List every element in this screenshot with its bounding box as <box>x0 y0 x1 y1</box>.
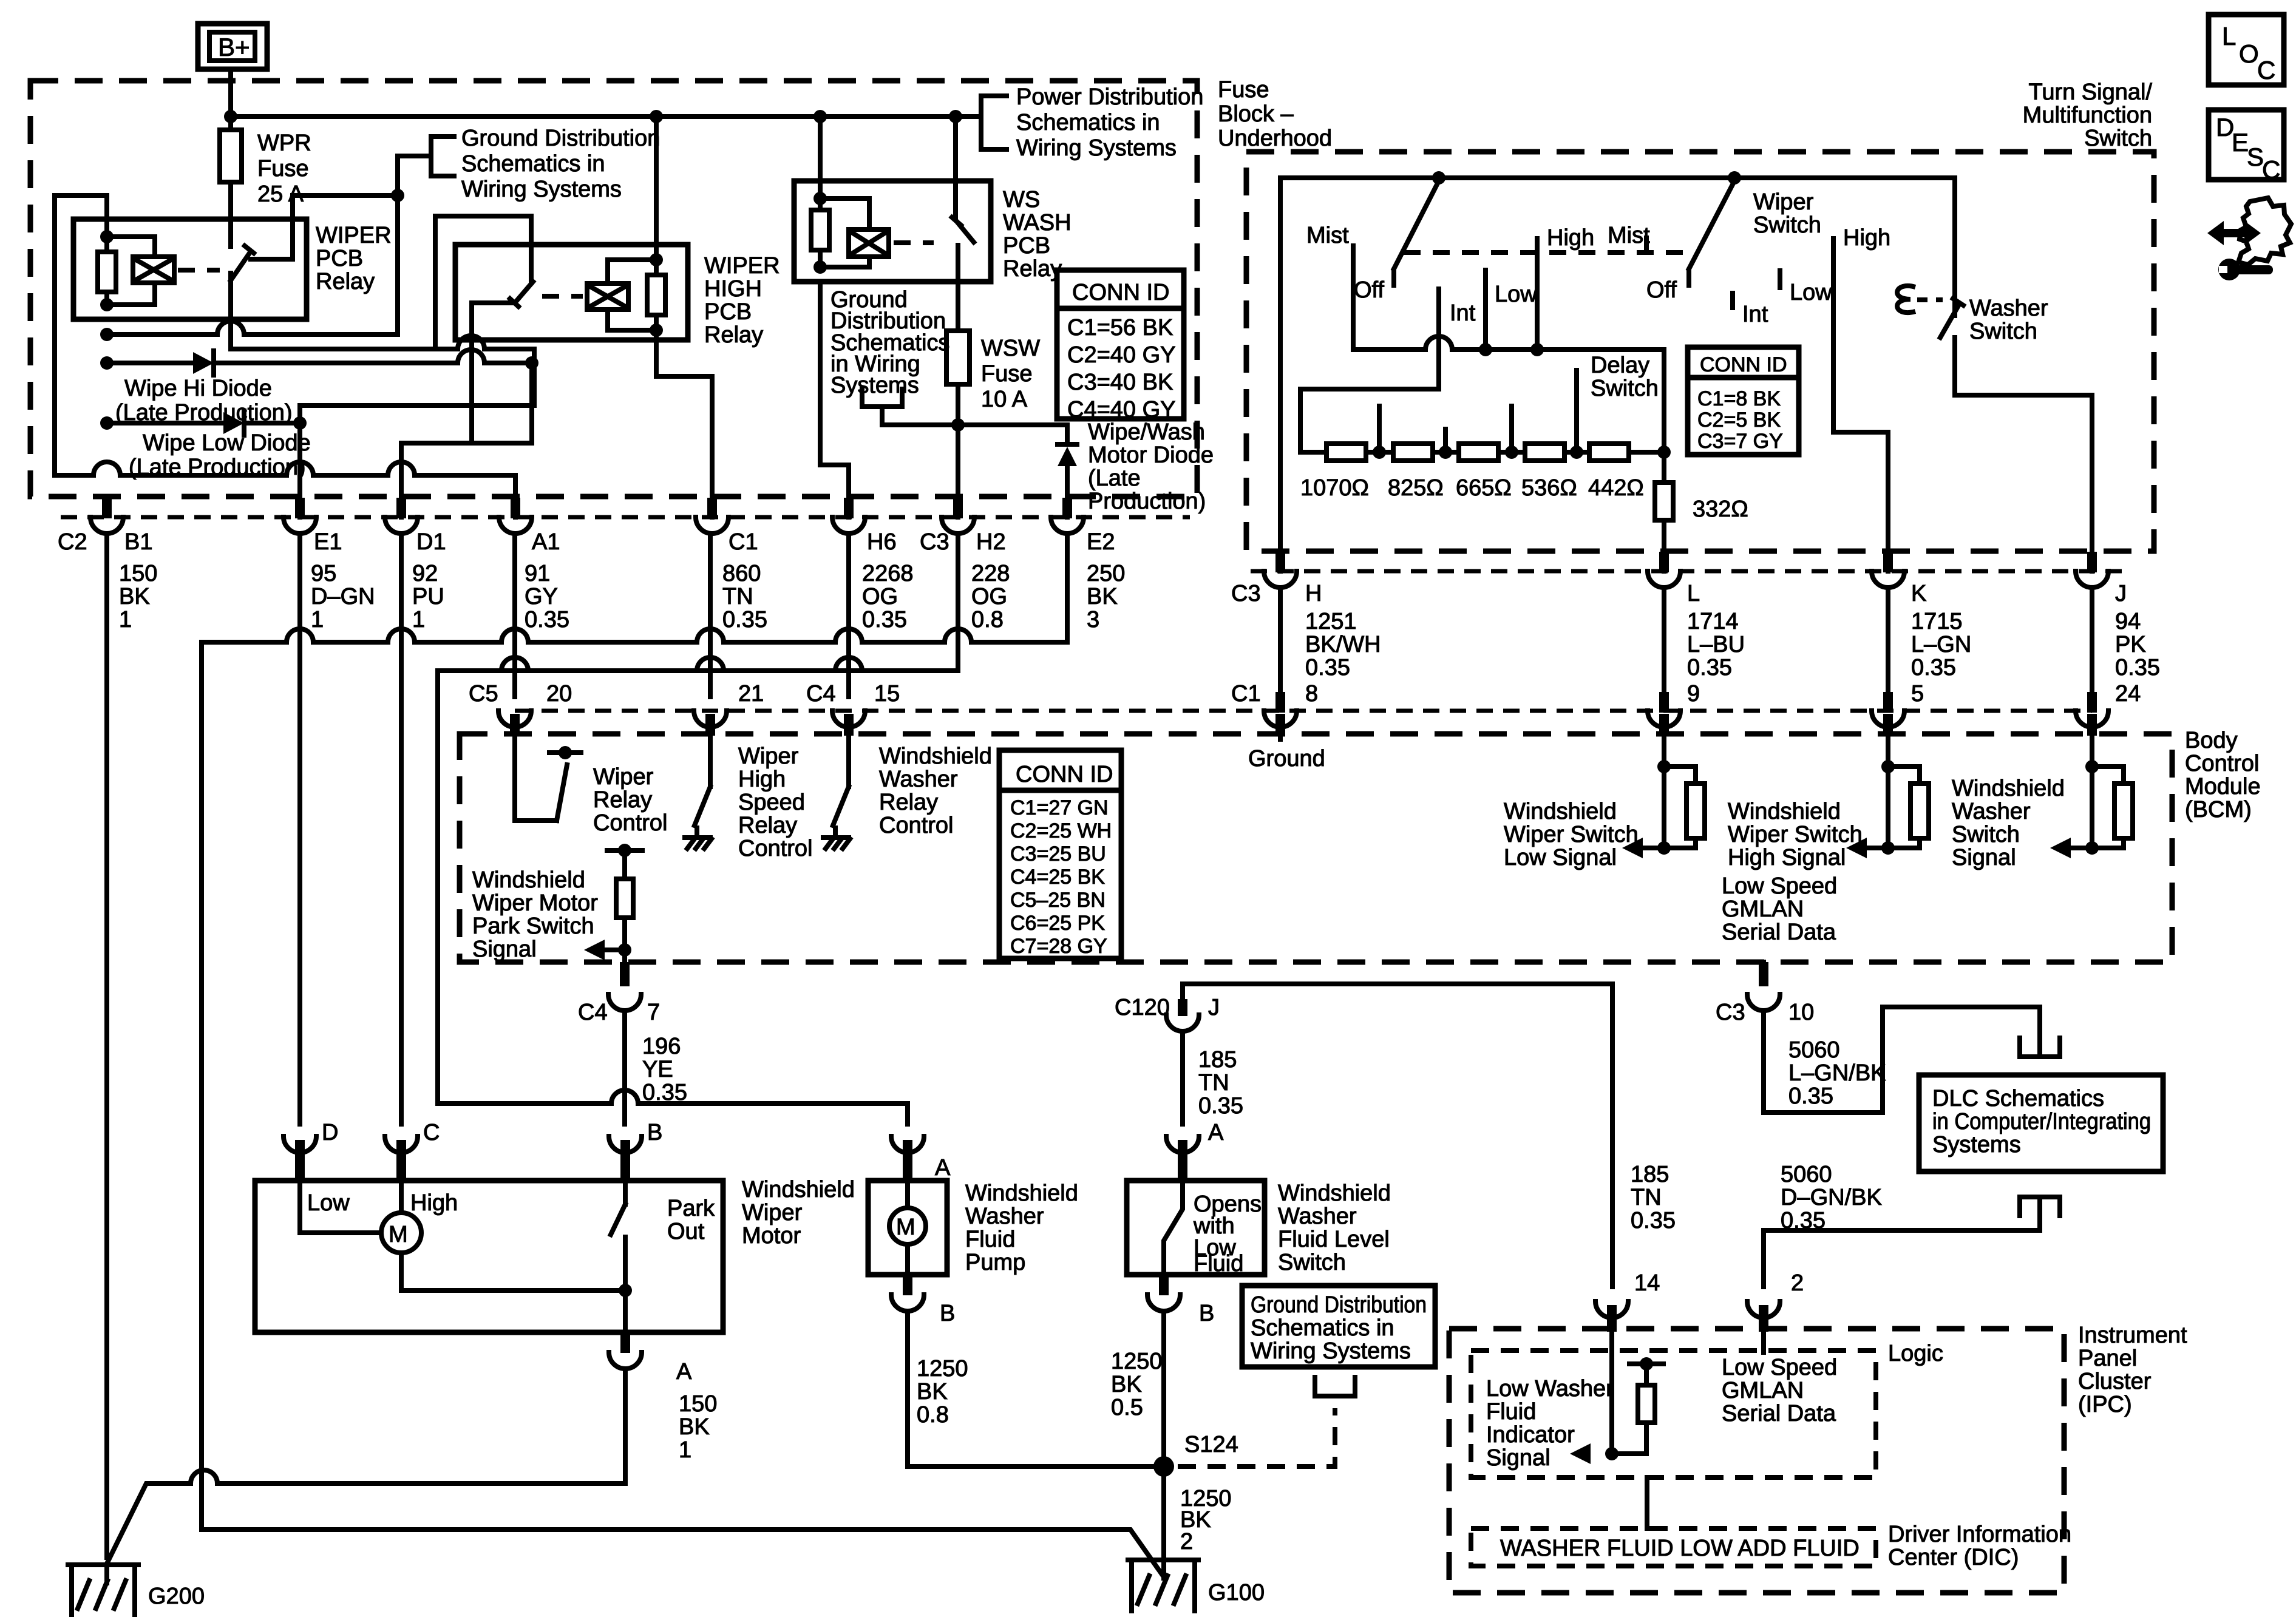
svg-text:CONN ID: CONN ID <box>1700 353 1787 376</box>
svg-text:Windshield: Windshield <box>472 867 585 893</box>
svg-text:H6: H6 <box>867 529 897 555</box>
wire E2 ground run <box>945 535 1067 642</box>
fuse WSW 10A <box>946 331 970 384</box>
arrow low washer fluid indicator signal <box>1570 1443 1591 1464</box>
arrow washer switch signal <box>2050 838 2071 858</box>
svg-text:Windshield: Windshield <box>965 1181 1078 1206</box>
svg-text:0.35: 0.35 <box>1911 655 1956 680</box>
svg-text:PCB: PCB <box>704 299 752 325</box>
arrow wiper switch high signal <box>1846 838 1867 858</box>
svg-text:BK: BK <box>1111 1372 1142 1397</box>
windshield washer fluid level switch box <box>1127 1181 1265 1275</box>
body control module dashed box <box>460 734 2172 962</box>
ground distribution schematics box lower <box>1242 1286 1435 1367</box>
svg-text:Panel: Panel <box>2078 1346 2137 1371</box>
svg-text:DLC Schematics: DLC Schematics <box>1932 1086 2104 1111</box>
svg-text:H: H <box>1305 581 1322 606</box>
svg-text:185: 185 <box>1631 1162 1669 1187</box>
svg-text:HIGH: HIGH <box>704 276 762 302</box>
svg-text:Wiper: Wiper <box>593 764 654 790</box>
svg-text:D–GN/BK: D–GN/BK <box>1781 1185 1882 1210</box>
wire ws coil to H6 <box>820 282 849 517</box>
svg-text:BK: BK <box>1087 584 1118 609</box>
svg-text:Power Distribution: Power Distribution <box>1016 84 1203 110</box>
svg-text:0.8: 0.8 <box>971 607 1004 632</box>
svg-text:Driver Information: Driver Information <box>1888 1522 2071 1547</box>
svg-text:GMLAN: GMLAN <box>1722 1378 1804 1403</box>
svg-text:TN: TN <box>722 584 753 609</box>
svg-text:5: 5 <box>1911 681 1924 707</box>
mechanical link dashed <box>1404 250 1683 255</box>
svg-text:8: 8 <box>1305 681 1318 707</box>
svg-text:Washer: Washer <box>965 1204 1044 1229</box>
wire C120 to fluid switch A <box>1180 1032 1185 1124</box>
wire ground pin stub <box>1278 736 1283 739</box>
svg-text:C: C <box>2262 155 2280 184</box>
svg-text:0.35: 0.35 <box>1687 655 1732 680</box>
svg-text:Wiring Systems: Wiring Systems <box>1251 1338 1411 1364</box>
fuse block underhood dashed box <box>30 81 1197 497</box>
svg-text:1250: 1250 <box>917 1356 968 1381</box>
svg-text:BK: BK <box>679 1414 710 1440</box>
node chain output <box>1657 446 1671 459</box>
svg-text:C5–25 BN: C5–25 BN <box>1010 889 1106 912</box>
svg-text:O: O <box>2239 39 2259 68</box>
relay WIPER HIGH PCB box <box>455 245 688 340</box>
connector 14 ipc <box>1595 1301 1628 1332</box>
connector A fluid level switch <box>1166 1136 1199 1181</box>
svg-text:S124: S124 <box>1184 1432 1238 1457</box>
svg-text:Fluid: Fluid <box>965 1227 1015 1252</box>
connector C3 10 gmlan <box>1747 962 1780 1011</box>
svg-text:C5: C5 <box>469 681 498 707</box>
wire 14 into logic <box>1609 1318 1614 1454</box>
washer switch arm <box>1940 299 1963 337</box>
node wipe low anode <box>100 416 114 430</box>
power distribution bracket <box>981 96 1007 149</box>
wire wiper relay pivot down <box>228 273 233 349</box>
svg-text:Wipe/Wash: Wipe/Wash <box>1088 419 1205 445</box>
wire A1 to BCM pin 20 <box>512 535 517 697</box>
svg-text:442Ω: 442Ω <box>1588 475 1644 501</box>
svg-text:0.35: 0.35 <box>525 607 569 632</box>
svg-text:150: 150 <box>119 561 157 586</box>
wire H6 to BCM pin 15 <box>846 535 851 697</box>
svg-text:Int: Int <box>1742 302 1768 327</box>
svg-text:14: 14 <box>1634 1270 1660 1296</box>
resistor 536 <box>1525 444 1564 461</box>
wire wiper common run <box>1353 336 1664 452</box>
svg-text:860: 860 <box>722 561 761 586</box>
svg-text:Wiper Switch: Wiper Switch <box>1504 822 1639 847</box>
svg-text:(BCM): (BCM) <box>2185 797 2252 822</box>
svg-text:Wiper: Wiper <box>738 744 799 769</box>
ws wash relay coil resistor <box>811 117 829 267</box>
svg-text:Low Speed: Low Speed <box>1722 873 1837 899</box>
node wiper relay control <box>559 746 572 759</box>
node coil bottom <box>100 298 114 311</box>
svg-text:Park: Park <box>667 1196 715 1221</box>
svg-text:0.35: 0.35 <box>862 607 907 632</box>
resistor 1070 <box>1326 444 1366 461</box>
connector H2 <box>942 498 974 534</box>
node wipe hi cathode <box>525 356 538 370</box>
svg-text:Instrument: Instrument <box>2078 1323 2187 1348</box>
svg-text:9: 9 <box>1687 681 1700 707</box>
svg-text:92: 92 <box>412 561 438 586</box>
svg-text:L–BU: L–BU <box>1687 632 1745 657</box>
node high signal resistor top <box>1881 760 1895 773</box>
driver information center dashed box <box>1471 1528 1876 1566</box>
svg-text:(Late: (Late <box>1088 466 1141 491</box>
windshield wiper motor box <box>255 1181 723 1332</box>
svg-text:Relay: Relay <box>738 813 797 838</box>
bcm washer switch signal input <box>2067 736 2133 848</box>
svg-text:Ground Distribution: Ground Distribution <box>461 126 660 151</box>
connector 21 <box>694 711 727 736</box>
svg-text:D–GN: D–GN <box>311 584 375 609</box>
svg-text:0.35: 0.35 <box>1631 1208 1676 1233</box>
svg-text:Fluid: Fluid <box>1194 1251 1243 1276</box>
wire S124 to G100 <box>1161 1466 1166 1578</box>
svg-text:GMLAN: GMLAN <box>1722 897 1804 922</box>
wire int to delay chain <box>1300 389 1439 452</box>
node ws coil bottom <box>813 260 827 274</box>
svg-text:Windshield: Windshield <box>1504 799 1617 824</box>
svg-text:(IPC): (IPC) <box>2078 1392 2132 1417</box>
svg-text:Motor Diode: Motor Diode <box>1088 442 1214 468</box>
svg-text:24: 24 <box>2115 681 2141 707</box>
svg-text:A: A <box>676 1359 692 1385</box>
wire int 1 <box>1436 289 1441 389</box>
node park signal arrow <box>618 943 631 957</box>
loc box <box>2209 15 2284 85</box>
svg-text:B+: B+ <box>218 33 250 61</box>
svg-text:10 A: 10 A <box>981 387 1028 412</box>
svg-text:0.35: 0.35 <box>1781 1208 1826 1233</box>
svg-text:C4: C4 <box>806 681 836 707</box>
svg-text:Block –: Block – <box>1218 101 1294 127</box>
service icon wrench <box>2218 259 2273 280</box>
wire wsw fuse to H2 <box>956 384 960 517</box>
svg-text:E1: E1 <box>314 529 342 555</box>
connector C4 7 park signal <box>608 962 641 1011</box>
svg-text:C3=25 BU: C3=25 BU <box>1010 842 1106 866</box>
wire fluid B to S124 <box>1161 1313 1166 1466</box>
wiper high relay dashed link <box>542 294 583 299</box>
svg-text:0.35: 0.35 <box>2115 655 2160 680</box>
node wipe hi anode <box>100 356 114 370</box>
logic dashed box <box>1471 1351 1876 1477</box>
conn id table multifunction <box>1688 347 1799 455</box>
washer switch curl <box>1897 286 1915 313</box>
svg-text:2: 2 <box>1791 1270 1804 1296</box>
bcm wiper high speed relay control switch <box>685 736 712 849</box>
svg-text:Relay: Relay <box>1003 256 1062 282</box>
tick mist 2 <box>1644 238 1649 253</box>
wire bracket to E2 diode <box>882 425 1067 444</box>
svg-text:Systems: Systems <box>1932 1132 2021 1158</box>
svg-text:Wipe Hi Diode: Wipe Hi Diode <box>124 376 272 401</box>
fluid level switch contact <box>1164 1181 1183 1275</box>
wire wiper high relay output <box>472 303 515 443</box>
connector 9 <box>1648 692 1680 736</box>
svg-text:94: 94 <box>2115 609 2141 634</box>
svg-text:825Ω: 825Ω <box>1388 475 1444 501</box>
connector B pump <box>891 1275 924 1311</box>
svg-text:Switch: Switch <box>2084 126 2152 151</box>
wire fuse to relay contact <box>228 182 233 246</box>
ground distribution cup bracket lower right <box>1315 1377 1355 1396</box>
node coil top <box>100 230 114 243</box>
svg-text:B: B <box>1199 1301 1214 1326</box>
dashed wire S124 to ground distribution <box>1178 1408 1335 1466</box>
svg-text:Mist: Mist <box>1608 223 1650 248</box>
relay WIPER PCB box <box>73 219 307 319</box>
wire K to BCM <box>1886 589 1890 697</box>
wire fluid level sense to ipc 14 <box>1183 984 1612 1287</box>
svg-text:WASH: WASH <box>1003 210 1072 236</box>
svg-text:Signal: Signal <box>1952 845 2016 870</box>
svg-text:WASHER FLUID LOW ADD FLUID: WASHER FLUID LOW ADD FLUID <box>1500 1536 1860 1561</box>
wire diode to E2 <box>1065 465 1070 517</box>
svg-text:0.35: 0.35 <box>1788 1083 1833 1109</box>
svg-text:Windshield: Windshield <box>1728 799 1841 824</box>
svg-text:D1: D1 <box>416 529 446 555</box>
svg-text:Windshield: Windshield <box>1278 1181 1391 1206</box>
node high tap <box>1530 343 1544 356</box>
svg-text:7: 7 <box>647 1000 660 1025</box>
svg-text:High: High <box>738 767 786 792</box>
resistor chain wires <box>1366 450 1664 455</box>
ground G200 <box>68 1565 138 1615</box>
bcm wiper relay control switch <box>515 736 581 821</box>
svg-text:Out: Out <box>667 1219 705 1244</box>
svg-text:C7=28 GY: C7=28 GY <box>1010 935 1107 958</box>
connector B fluid level switch <box>1147 1275 1180 1311</box>
wire H to BCM <box>1278 589 1283 697</box>
svg-text:1: 1 <box>119 607 132 632</box>
svg-text:Signal: Signal <box>472 937 537 962</box>
svg-text:Switch: Switch <box>1591 376 1659 401</box>
svg-text:BK: BK <box>917 1379 948 1405</box>
diode wipe hi <box>107 350 532 375</box>
svg-text:2268: 2268 <box>862 561 914 586</box>
svg-text:WS: WS <box>1003 187 1040 212</box>
svg-text:Wiper: Wiper <box>742 1200 803 1225</box>
svg-text:High Signal: High Signal <box>1728 845 1846 870</box>
park out switch <box>611 1181 625 1332</box>
svg-text:Fuse: Fuse <box>981 361 1032 387</box>
svg-text:G200: G200 <box>148 1584 205 1609</box>
svg-text:C3: C3 <box>1716 1000 1745 1025</box>
svg-text:Park Switch: Park Switch <box>472 914 594 939</box>
svg-text:Relay: Relay <box>316 269 375 294</box>
node low signal arrow <box>1657 841 1671 855</box>
svg-text:G100: G100 <box>1208 1580 1265 1605</box>
wire logic to dic <box>1645 1477 1649 1528</box>
node chain tap 2 <box>1439 446 1452 459</box>
svg-text:Low: Low <box>1790 280 1832 305</box>
svg-text:(Late Production): (Late Production) <box>129 455 306 480</box>
wiper relay switch arm <box>231 246 254 280</box>
node ipc arrow junction <box>1605 1447 1618 1460</box>
svg-text:WSW: WSW <box>981 336 1040 361</box>
svg-text:C3=7 GY: C3=7 GY <box>1697 430 1783 453</box>
wire high coil to C1 pin <box>656 330 712 517</box>
wiper high relay coil resistor <box>647 117 665 330</box>
connector 15 <box>832 711 865 736</box>
wire A1 relay control path <box>55 195 515 517</box>
svg-text:A: A <box>935 1155 951 1181</box>
wire C1 to BCM pin 21 <box>708 535 713 697</box>
resistor 825 <box>1393 444 1433 461</box>
svg-text:Turn Signal/: Turn Signal/ <box>2029 80 2153 105</box>
svg-text:228: 228 <box>971 561 1010 586</box>
wiper high relay coil <box>587 260 656 330</box>
wire J to BCM <box>2090 589 2094 697</box>
node B+ bus junction <box>224 110 237 123</box>
node ws coil top <box>813 192 827 205</box>
svg-text:L–GN: L–GN <box>1911 632 1971 657</box>
svg-text:High: High <box>1547 225 1594 251</box>
svg-text:91: 91 <box>525 561 550 586</box>
connector D motor <box>284 1136 316 1181</box>
svg-text:Switch: Switch <box>1278 1250 1346 1275</box>
delay switch tap stubs <box>1379 370 1577 452</box>
connector row C3 multifunction <box>1251 569 2131 574</box>
svg-text:0.35: 0.35 <box>1198 1093 1243 1119</box>
svg-text:Off: Off <box>1646 277 1677 303</box>
svg-text:Speed: Speed <box>738 790 805 815</box>
node washer feed split <box>951 418 965 432</box>
svg-text:Wiper Switch: Wiper Switch <box>1728 822 1863 847</box>
wire motor A to G200 <box>107 1371 625 1562</box>
wiper switch 1 arm <box>1394 183 1438 285</box>
svg-text:Wiring Systems: Wiring Systems <box>1016 135 1177 161</box>
svg-text:C3: C3 <box>920 529 949 555</box>
svg-text:B: B <box>647 1120 662 1145</box>
svg-text:OG: OG <box>971 584 1007 609</box>
svg-text:PCB: PCB <box>1003 233 1050 259</box>
svg-text:J: J <box>1208 995 1220 1020</box>
svg-text:J: J <box>2115 581 2127 606</box>
wire D1 to motor C <box>399 535 404 1124</box>
wiper relay coil <box>107 237 174 305</box>
instrument panel cluster dashed box <box>1449 1329 2064 1593</box>
svg-text:Body: Body <box>2185 728 2238 753</box>
svg-text:1250: 1250 <box>1111 1349 1163 1374</box>
svg-text:Washer: Washer <box>1278 1204 1357 1229</box>
svg-text:0.35: 0.35 <box>642 1080 687 1105</box>
bcm park switch signal sensing <box>601 850 642 962</box>
connector A motor <box>609 1332 642 1369</box>
wire wash relay output down <box>956 245 960 331</box>
ground distribution bracket <box>431 137 454 176</box>
conn id table fuse block <box>1057 270 1184 422</box>
svg-text:Signal: Signal <box>1486 1445 1550 1471</box>
connector A pump <box>891 1136 924 1181</box>
connector row C2/C3 fuse block <box>61 515 1190 520</box>
node high coil top <box>650 253 663 266</box>
svg-text:E2: E2 <box>1087 529 1115 555</box>
svg-text:PK: PK <box>2115 632 2146 657</box>
wire B1 ground link <box>107 156 431 334</box>
svg-text:Low Speed: Low Speed <box>1722 1355 1837 1380</box>
svg-text:Ground Distribution: Ground Distribution <box>1251 1292 1427 1318</box>
connector E2 <box>1051 498 1084 534</box>
svg-text:C2=25 WH: C2=25 WH <box>1010 819 1112 842</box>
svg-text:Ground: Ground <box>1248 746 1325 771</box>
node bus to wiper-high coil <box>650 110 663 123</box>
svg-text:0.8: 0.8 <box>917 1402 949 1428</box>
windshield washer fluid pump box <box>868 1181 947 1275</box>
svg-text:Low Signal: Low Signal <box>1504 845 1617 870</box>
node chain tap 1 <box>1373 446 1386 459</box>
svg-text:Pump: Pump <box>965 1250 1025 1275</box>
wire L to BCM <box>1662 589 1666 697</box>
svg-text:C1: C1 <box>729 529 758 555</box>
svg-text:C1=56 BK: C1=56 BK <box>1067 315 1173 341</box>
motor M windshield wiper <box>300 1181 625 1290</box>
wire high 1 <box>1535 239 1540 350</box>
svg-text:Washer: Washer <box>1969 296 2048 321</box>
svg-text:2: 2 <box>1180 1529 1193 1554</box>
conn id table bcm <box>999 750 1121 958</box>
svg-text:3: 3 <box>1087 607 1099 632</box>
svg-text:B1: B1 <box>124 529 152 555</box>
svg-text:TN: TN <box>1198 1070 1229 1096</box>
dlc cup bracket upper <box>2020 1038 2060 1057</box>
svg-text:0.35: 0.35 <box>722 607 767 632</box>
svg-text:Production): Production) <box>1088 489 1206 514</box>
svg-text:Serial Data: Serial Data <box>1722 920 1836 945</box>
dlc schematics box <box>1919 1075 2163 1171</box>
svg-text:B: B <box>940 1301 955 1326</box>
svg-text:C4: C4 <box>578 1000 608 1025</box>
fuse WPR 25A <box>220 130 242 182</box>
resistor 332 <box>1655 452 1673 571</box>
svg-text:Control: Control <box>2185 751 2260 776</box>
svg-text:Fluid Level: Fluid Level <box>1278 1227 1390 1252</box>
wire E1 to motor D <box>297 535 302 1124</box>
svg-text:Low: Low <box>1495 282 1537 307</box>
svg-text:High: High <box>1843 225 1890 251</box>
svg-text:Schematics in: Schematics in <box>1251 1315 1394 1341</box>
wire H2 to washer pump <box>438 535 958 1124</box>
svg-text:Control: Control <box>593 810 668 836</box>
svg-text:D: D <box>322 1120 338 1145</box>
svg-text:Washer: Washer <box>1952 799 2031 824</box>
svg-text:95: 95 <box>311 561 336 586</box>
wire relay output stub to ground net <box>251 195 398 259</box>
diode wipe low <box>107 411 300 435</box>
node park out junction <box>619 1284 632 1297</box>
svg-text:Multifunction: Multifunction <box>2023 103 2152 128</box>
node low tap <box>1479 343 1492 356</box>
svg-text:C2: C2 <box>58 529 87 555</box>
connector 2 ipc <box>1747 1301 1780 1332</box>
svg-text:Relay: Relay <box>879 790 938 815</box>
svg-text:Switch: Switch <box>1952 822 2020 847</box>
node high coil bottom <box>650 324 663 337</box>
node B1 ground link <box>100 328 114 341</box>
tick int 2 <box>1730 293 1735 308</box>
svg-text:K: K <box>1911 581 1926 606</box>
node washer signal resistor top <box>2085 760 2099 773</box>
svg-text:Fuse: Fuse <box>257 156 308 181</box>
wire D1 to high relay output <box>401 363 532 517</box>
